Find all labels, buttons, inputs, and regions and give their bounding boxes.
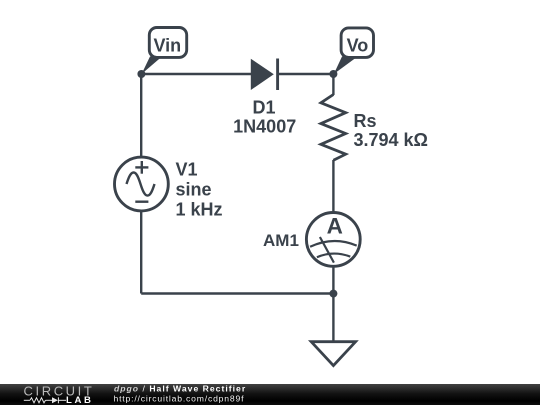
svg-text:A: A [327, 213, 343, 238]
svg-text:dpgo / Half Wave Rectifier: dpgo / Half Wave Rectifier [114, 384, 246, 393]
svg-text:3.794 kΩ: 3.794 kΩ [354, 130, 429, 150]
svg-text:1 kHz: 1 kHz [176, 200, 223, 220]
ammeter AM1 [306, 213, 360, 267]
ground [311, 342, 355, 366]
voltage source V1 [114, 157, 168, 211]
svg-text:Vin: Vin [153, 36, 181, 56]
diode D1 [251, 59, 278, 91]
wire diode cathode to Vo node [278, 73, 334, 75]
net flag Vin [142, 28, 187, 75]
wire resistor to ammeter [332, 160, 334, 212]
footer bar [0, 384, 540, 405]
wire bottom horizontal [141, 292, 333, 294]
node Vin junction [137, 70, 145, 78]
svg-text:LAB: LAB [66, 395, 94, 405]
wire Vin node down to V1 [140, 74, 142, 157]
wire V1 to bottom wire [140, 212, 142, 294]
svg-text:1N4007: 1N4007 [233, 117, 296, 137]
wire Vin node to diode anode [141, 73, 252, 75]
node bottom junction [329, 290, 337, 298]
svg-text:Vo: Vo [347, 36, 369, 56]
svg-text:http://circuitlab.com/cdpn89f: http://circuitlab.com/cdpn89f [114, 393, 245, 403]
svg-text:sine: sine [176, 180, 212, 200]
net flag Vo [334, 28, 374, 74]
svg-text:D1: D1 [252, 98, 275, 118]
svg-text:AM1: AM1 [263, 231, 299, 250]
node Vo junction [329, 70, 337, 78]
resistor Rs [321, 95, 346, 161]
wire ammeter to bottom node [332, 267, 334, 294]
CircuitLab logo schematic (resistor + diode) [24, 397, 66, 403]
wire bottom node to ground [332, 294, 334, 343]
svg-text:V1: V1 [176, 160, 198, 180]
svg-text:Rs: Rs [354, 111, 377, 131]
wire Vo node to resistor top [332, 74, 334, 95]
